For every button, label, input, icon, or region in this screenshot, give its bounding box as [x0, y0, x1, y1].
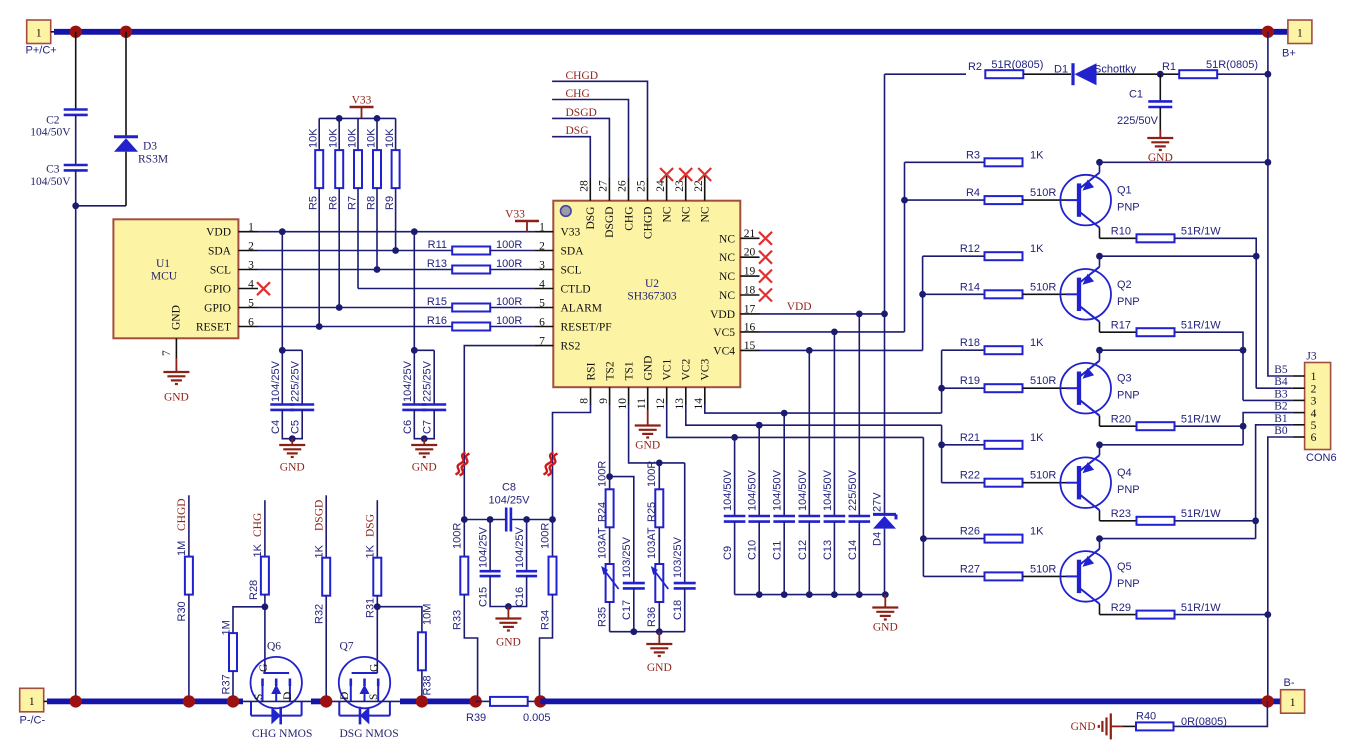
svg-text:NC: NC [681, 206, 693, 222]
wire VC4 rail [760, 349, 923, 351]
wire [1097, 73, 1180, 75]
svg-text:VDD: VDD [710, 309, 735, 321]
junction [856, 591, 863, 598]
U2 pin 18 NC [740, 294, 759, 296]
resistor R8 10K [376, 118, 378, 150]
wire emitter row right Q2 [1100, 255, 1257, 257]
svg-text:3: 3 [539, 259, 545, 271]
bus segment [400, 699, 476, 705]
resistor R3 1K [985, 158, 1023, 166]
svg-text:D4: D4 [872, 532, 884, 546]
svg-text:C8: C8 [502, 481, 516, 493]
svg-text:R15: R15 [427, 296, 447, 308]
capacitor C11 104/50V [783, 413, 785, 516]
svg-text:GND: GND [164, 392, 189, 404]
svg-text:1: 1 [36, 28, 42, 40]
svg-text:R35: R35 [597, 607, 609, 627]
svg-text:R16: R16 [427, 315, 447, 327]
svg-text:C9: C9 [722, 546, 734, 560]
bus B+ rail (top) [54, 29, 1288, 35]
no-connect X [759, 270, 772, 283]
net label CHGD wire [552, 81, 647, 178]
capacitor C1 225/50V [1159, 74, 1161, 101]
junction [1253, 253, 1260, 260]
wire [264, 595, 266, 673]
svg-text:U2: U2 [645, 278, 659, 290]
net label CHG wire [552, 100, 628, 179]
ground GND (U1) [175, 358, 177, 372]
svg-text:RESET/PF: RESET/PF [561, 322, 612, 334]
resistor R5 10K [318, 118, 320, 150]
no-connect X [698, 168, 711, 181]
transistor Q5 PNP [1060, 551, 1111, 602]
U2 pin 6 RESET/PF [534, 326, 553, 328]
wire VC1 rail [666, 387, 668, 405]
wire emitter row Q2 [923, 255, 985, 257]
svg-text:28: 28 [579, 180, 591, 192]
TS1 branch rail [628, 387, 630, 405]
diode D3 RS3M [125, 32, 127, 137]
svg-text:CHG: CHG [566, 88, 590, 100]
junction [487, 516, 494, 523]
bus B- rail (bottom right) [540, 699, 1281, 705]
shunt resistor R39 0.005 [490, 697, 528, 706]
junction [882, 591, 889, 598]
thermistor R36 103AT [655, 564, 663, 602]
svg-text:1: 1 [248, 222, 254, 234]
svg-text:225/50V: 225/50V [1117, 115, 1159, 127]
wire [421, 670, 423, 701]
resistor R4 510R [985, 196, 1023, 204]
node - D3 join [72, 202, 79, 209]
junction [919, 291, 926, 298]
svg-text:24: 24 [655, 180, 667, 192]
svg-text:C14: C14 [847, 540, 859, 560]
svg-text:R33: R33 [452, 610, 464, 630]
svg-text:104/50V: 104/50V [772, 469, 784, 511]
svg-text:25: 25 [636, 180, 648, 192]
junction [316, 323, 323, 330]
U2 pin 4 CTLD [534, 288, 553, 290]
svg-text:R11: R11 [428, 239, 447, 251]
svg-text:103/25V: 103/25V [621, 536, 633, 578]
svg-text:51R(0805): 51R(0805) [1206, 59, 1258, 71]
capacitor C14 225/50V [858, 314, 860, 516]
svg-text:GND: GND [643, 356, 655, 381]
svg-text:R19: R19 [960, 375, 980, 387]
svg-text:V33: V33 [561, 227, 581, 239]
no-connect X [759, 232, 772, 245]
resistor R20 51R/1W [1137, 422, 1175, 430]
svg-text:R23: R23 [1111, 508, 1131, 520]
U1 pin 4 GPIO [238, 288, 258, 290]
svg-text:20: 20 [744, 247, 756, 259]
svg-text:R2: R2 [968, 61, 982, 73]
junction [549, 516, 556, 523]
wire VDD rail [760, 313, 885, 315]
svg-text:DSG: DSG [566, 125, 589, 137]
svg-text:PNP: PNP [1117, 484, 1140, 496]
junction emitter row [1096, 159, 1103, 166]
svg-text:R37: R37 [221, 674, 233, 694]
riser wire cell Q2 [922, 256, 924, 350]
svg-text:NC: NC [700, 206, 712, 222]
thermistor R35 103AT [606, 564, 614, 602]
J3 pin 3 [1293, 399, 1305, 401]
transistor Q3 PNP [1060, 363, 1111, 414]
wire B4 to J3 pin2 [1256, 387, 1293, 389]
U2 pin 15 VC4 [740, 349, 759, 351]
svg-text:C10: C10 [747, 540, 759, 560]
resistor R40 0R(0805) [1136, 722, 1174, 730]
wire R37 branch [233, 607, 265, 633]
net label DSG wire [376, 500, 378, 558]
svg-text:R26: R26 [960, 526, 980, 538]
svg-text:100R: 100R [496, 315, 522, 327]
svg-text:510R: 510R [1030, 281, 1056, 293]
svg-text:GND: GND [412, 462, 437, 474]
svg-text:R4: R4 [966, 187, 980, 199]
junction [70, 26, 82, 38]
wire [325, 596, 327, 702]
wire [885, 73, 967, 75]
svg-text:GND: GND [171, 305, 183, 330]
bus P- rail (bottom left) [47, 699, 243, 705]
svg-text:5: 5 [248, 297, 254, 309]
transistor Q1 PNP [1060, 175, 1111, 226]
wire [232, 671, 234, 701]
junction [523, 516, 530, 523]
junction [656, 460, 663, 467]
svg-text:DSG: DSG [585, 207, 597, 230]
svg-text:Q6: Q6 [267, 640, 281, 652]
svg-text:225/50V: 225/50V [847, 469, 859, 511]
svg-text:1K: 1K [252, 543, 264, 557]
junction [656, 628, 663, 635]
capacitor C5 225/25V [282, 349, 302, 351]
svg-text:27: 27 [598, 180, 610, 192]
svg-text:VC2: VC2 [681, 359, 693, 381]
svg-text:R21: R21 [960, 432, 980, 444]
svg-text:1: 1 [1297, 28, 1303, 40]
svg-text:7: 7 [161, 350, 173, 356]
svg-text:104/50V: 104/50V [30, 127, 71, 139]
svg-text:103/25V: 103/25V [672, 536, 684, 578]
U2 pin 5 ALARM [534, 307, 553, 309]
svg-text:RSI: RSI [585, 362, 597, 380]
wire base lead Q3 [1023, 387, 1066, 389]
transistor Q6 CHG NMOS [251, 657, 302, 708]
svg-text:Q7: Q7 [340, 640, 354, 652]
cap bank ground rail [735, 594, 886, 596]
wire collector row Q4 [1100, 520, 1137, 522]
svg-text:PNP: PNP [1117, 390, 1140, 402]
svg-text:1K: 1K [1030, 432, 1044, 444]
svg-text:R14: R14 [960, 281, 980, 293]
resistor R10 51R/1W [1137, 234, 1175, 242]
wire [528, 700, 541, 702]
svg-text:SDA: SDA [208, 245, 232, 257]
svg-text:CHG NMOS: CHG NMOS [252, 728, 312, 740]
svg-text:C3: C3 [46, 164, 60, 176]
svg-text:100R: 100R [597, 461, 609, 487]
svg-text:51R/1W: 51R/1W [1181, 226, 1221, 238]
svg-text:TS2: TS2 [604, 361, 616, 380]
svg-text:Q4: Q4 [1117, 467, 1132, 479]
svg-text:R25: R25 [646, 502, 658, 522]
ground GND (C4/C5) [291, 439, 293, 445]
wire [243, 700, 312, 702]
svg-text:SCL: SCL [210, 264, 231, 276]
svg-text:CHG: CHG [252, 513, 264, 537]
resistor R11 100R [452, 247, 490, 255]
wire [1174, 701, 1268, 726]
wire R17 to B3 node [1175, 332, 1244, 400]
svg-text:NC: NC [661, 206, 673, 222]
resistor R2 51R(0805) [985, 70, 1023, 78]
wire [75, 32, 77, 110]
resistor R26 1K [985, 535, 1023, 543]
wire RESET row [258, 326, 452, 328]
U2 pin 16 VC5 [740, 331, 759, 333]
svg-text:51R/1W: 51R/1W [1181, 602, 1221, 614]
svg-text:27V: 27V [872, 492, 884, 512]
wire [188, 595, 190, 702]
svg-text:104/50V: 104/50V [30, 176, 71, 188]
wire emitter row right Q4 [1100, 444, 1244, 446]
svg-text:C6: C6 [402, 420, 414, 434]
svg-text:R10: R10 [1111, 226, 1131, 238]
svg-text:R28: R28 [248, 580, 260, 600]
svg-text:104/50V: 104/50V [797, 469, 809, 511]
svg-text:18: 18 [744, 285, 756, 297]
capacitor C10 104/50V [758, 425, 760, 516]
svg-text:NC: NC [719, 290, 735, 302]
wire B3 to J3 pin3 [1243, 399, 1293, 401]
svg-text:R34: R34 [540, 610, 552, 630]
svg-text:DSGD: DSGD [604, 207, 616, 238]
wire base row Q2 [923, 293, 985, 295]
wire TS2 pin9 column [609, 387, 611, 405]
U2 pin 11 ground GND [647, 387, 649, 410]
svg-text:104/25V: 104/25V [489, 495, 531, 507]
junction [1157, 71, 1164, 78]
svg-text:R13: R13 [427, 258, 447, 270]
svg-text:103AT: 103AT [646, 527, 658, 559]
wire base lead Q4 [1023, 482, 1066, 484]
resistor R33 100R [463, 520, 465, 557]
svg-text:5: 5 [539, 297, 545, 309]
junction [1262, 695, 1274, 707]
svg-text:B-: B- [1284, 677, 1295, 689]
terminal P+/C+ [27, 20, 51, 44]
svg-text:10K: 10K [308, 128, 320, 148]
svg-text:16: 16 [744, 321, 756, 333]
diode D1 Schottky [1071, 63, 1074, 85]
svg-text:3: 3 [248, 259, 254, 271]
svg-text:D: D [282, 692, 294, 700]
wire R29 row to B0 [1175, 614, 1268, 616]
U2 pin 3 SCL [534, 269, 553, 271]
svg-text:G: G [369, 664, 381, 672]
svg-text:R6: R6 [328, 196, 340, 210]
svg-text:0.005: 0.005 [523, 712, 551, 724]
svg-text:1: 1 [1311, 371, 1317, 383]
svg-text:U1: U1 [156, 258, 170, 270]
wire emitter row Q5 [923, 538, 984, 540]
svg-text:4: 4 [539, 278, 545, 290]
resistor R15 100R [452, 304, 490, 312]
wire collector row Q3 [1100, 425, 1137, 427]
svg-text:R17: R17 [1111, 319, 1131, 331]
connector J3 CON6 body [1305, 363, 1331, 450]
junction [227, 695, 239, 707]
wire [609, 602, 611, 632]
U2 pin 20 NC [740, 256, 759, 258]
wire SDA row [258, 250, 452, 252]
wire [376, 596, 378, 673]
svg-text:R30: R30 [176, 601, 188, 621]
wire CTLD row [358, 288, 534, 290]
svg-text:8: 8 [579, 398, 591, 404]
svg-text:DSGD: DSGD [566, 107, 597, 119]
svg-text:51R/1W: 51R/1W [1181, 319, 1221, 331]
resistor R9 10K [395, 118, 397, 150]
B+ / B5 vertical [1268, 32, 1293, 376]
wire [338, 188, 340, 307]
riser wire cell Q1 [904, 162, 906, 332]
wire [1023, 73, 1071, 75]
svg-text:1K: 1K [1030, 337, 1044, 349]
svg-text:R29: R29 [1111, 602, 1131, 614]
svg-text:100R: 100R [452, 523, 464, 549]
capacitor C6 104/25V [413, 232, 415, 405]
wire VDD row [258, 231, 534, 233]
svg-text:C7: C7 [422, 420, 434, 434]
ground GND (cap bank) [884, 595, 886, 608]
svg-text:VC5: VC5 [713, 327, 735, 339]
resistor R34 100R [552, 520, 554, 557]
svg-text:22: 22 [693, 180, 705, 192]
resistor R21 1K [985, 441, 1023, 449]
junction [1240, 423, 1247, 430]
wire B0 vertical from J3 pin6 [1268, 437, 1293, 701]
capacitor C12 104/50V [808, 350, 810, 516]
wire R38 branch [377, 607, 422, 633]
junction emitter row [1096, 535, 1103, 542]
junction [411, 228, 418, 235]
junction [806, 591, 813, 598]
junction [938, 441, 945, 448]
wire [658, 602, 660, 632]
svg-text:TS1: TS1 [623, 361, 635, 380]
svg-text:4: 4 [248, 278, 254, 290]
svg-text:C1: C1 [1129, 89, 1143, 101]
svg-text:D3: D3 [143, 141, 157, 153]
junction [534, 695, 546, 707]
svg-text:C16: C16 [514, 587, 526, 607]
U1 pin 2 SDA [238, 250, 258, 252]
svg-text:6: 6 [539, 316, 545, 328]
svg-text:R27: R27 [960, 563, 980, 575]
svg-text:S: S [253, 694, 265, 700]
junction [731, 434, 738, 441]
svg-text:SDA: SDA [561, 246, 585, 258]
svg-text:1K: 1K [1030, 526, 1044, 538]
ground GND (C15/C16) [507, 607, 509, 619]
svg-text:C11: C11 [772, 541, 784, 560]
svg-text:C18: C18 [672, 600, 684, 620]
svg-text:V33: V33 [352, 94, 372, 106]
svg-text:GND: GND [873, 622, 898, 634]
svg-text:3: 3 [1311, 396, 1317, 408]
svg-text:7: 7 [539, 335, 545, 347]
ground GND (C6/C7) [423, 439, 425, 445]
svg-text:100R: 100R [540, 523, 552, 549]
svg-text:PNP: PNP [1117, 578, 1140, 590]
junction [469, 695, 481, 707]
svg-text:51R(0805): 51R(0805) [991, 59, 1043, 71]
J3 pin 2 [1293, 387, 1305, 389]
riser wire cell Q3 [941, 350, 943, 413]
junction [262, 603, 269, 610]
resistor R19 510R [985, 384, 1023, 392]
junction emitter row [1096, 441, 1103, 448]
transistor Q7 DSG NMOS [339, 657, 390, 708]
junction [374, 266, 381, 273]
transistor Q2 PNP [1060, 269, 1111, 320]
wire collector row Q2 [1100, 331, 1137, 333]
wire collector row Q5 [1100, 614, 1137, 616]
ground GND (thermistors) [658, 632, 660, 644]
wire [51, 31, 58, 33]
wire collector row Q1 [1100, 237, 1137, 239]
wire [464, 595, 477, 702]
svg-text:GND: GND [496, 637, 521, 649]
svg-text:104/50V: 104/50V [747, 469, 759, 511]
capacitor C4 104/25V [281, 232, 283, 405]
U2 pin 19 NC [740, 275, 759, 277]
svg-text:2: 2 [1311, 383, 1317, 395]
svg-text:4: 4 [1311, 408, 1317, 420]
svg-text:26: 26 [617, 180, 629, 192]
svg-text:D1: D1 [1054, 64, 1068, 76]
sense rail [464, 519, 505, 521]
svg-text:B0: B0 [1274, 425, 1288, 437]
svg-text:B4: B4 [1274, 376, 1288, 388]
svg-text:VC1: VC1 [662, 359, 674, 381]
svg-text:GPIO: GPIO [204, 302, 231, 314]
svg-text:GND: GND [280, 462, 305, 474]
junction [630, 628, 637, 635]
op-amp U1 MCU body [113, 219, 238, 338]
svg-text:B+: B+ [1282, 48, 1296, 60]
junction emitter row [1096, 253, 1103, 260]
U1 pin 6 RESET [238, 326, 258, 328]
svg-text:R7: R7 [347, 196, 359, 210]
svg-text:P+/C+: P+/C+ [26, 45, 57, 57]
capacitor C2 [64, 108, 88, 111]
no-connect X [679, 168, 692, 181]
svg-text:R9: R9 [384, 196, 396, 210]
svg-text:104/50V: 104/50V [822, 469, 834, 511]
svg-text:1K: 1K [365, 544, 377, 558]
wire base lead Q5 [1023, 575, 1066, 577]
resistor R13 100R [452, 266, 490, 274]
wire [75, 170, 77, 701]
svg-text:10: 10 [617, 398, 629, 410]
wire [490, 576, 526, 606]
